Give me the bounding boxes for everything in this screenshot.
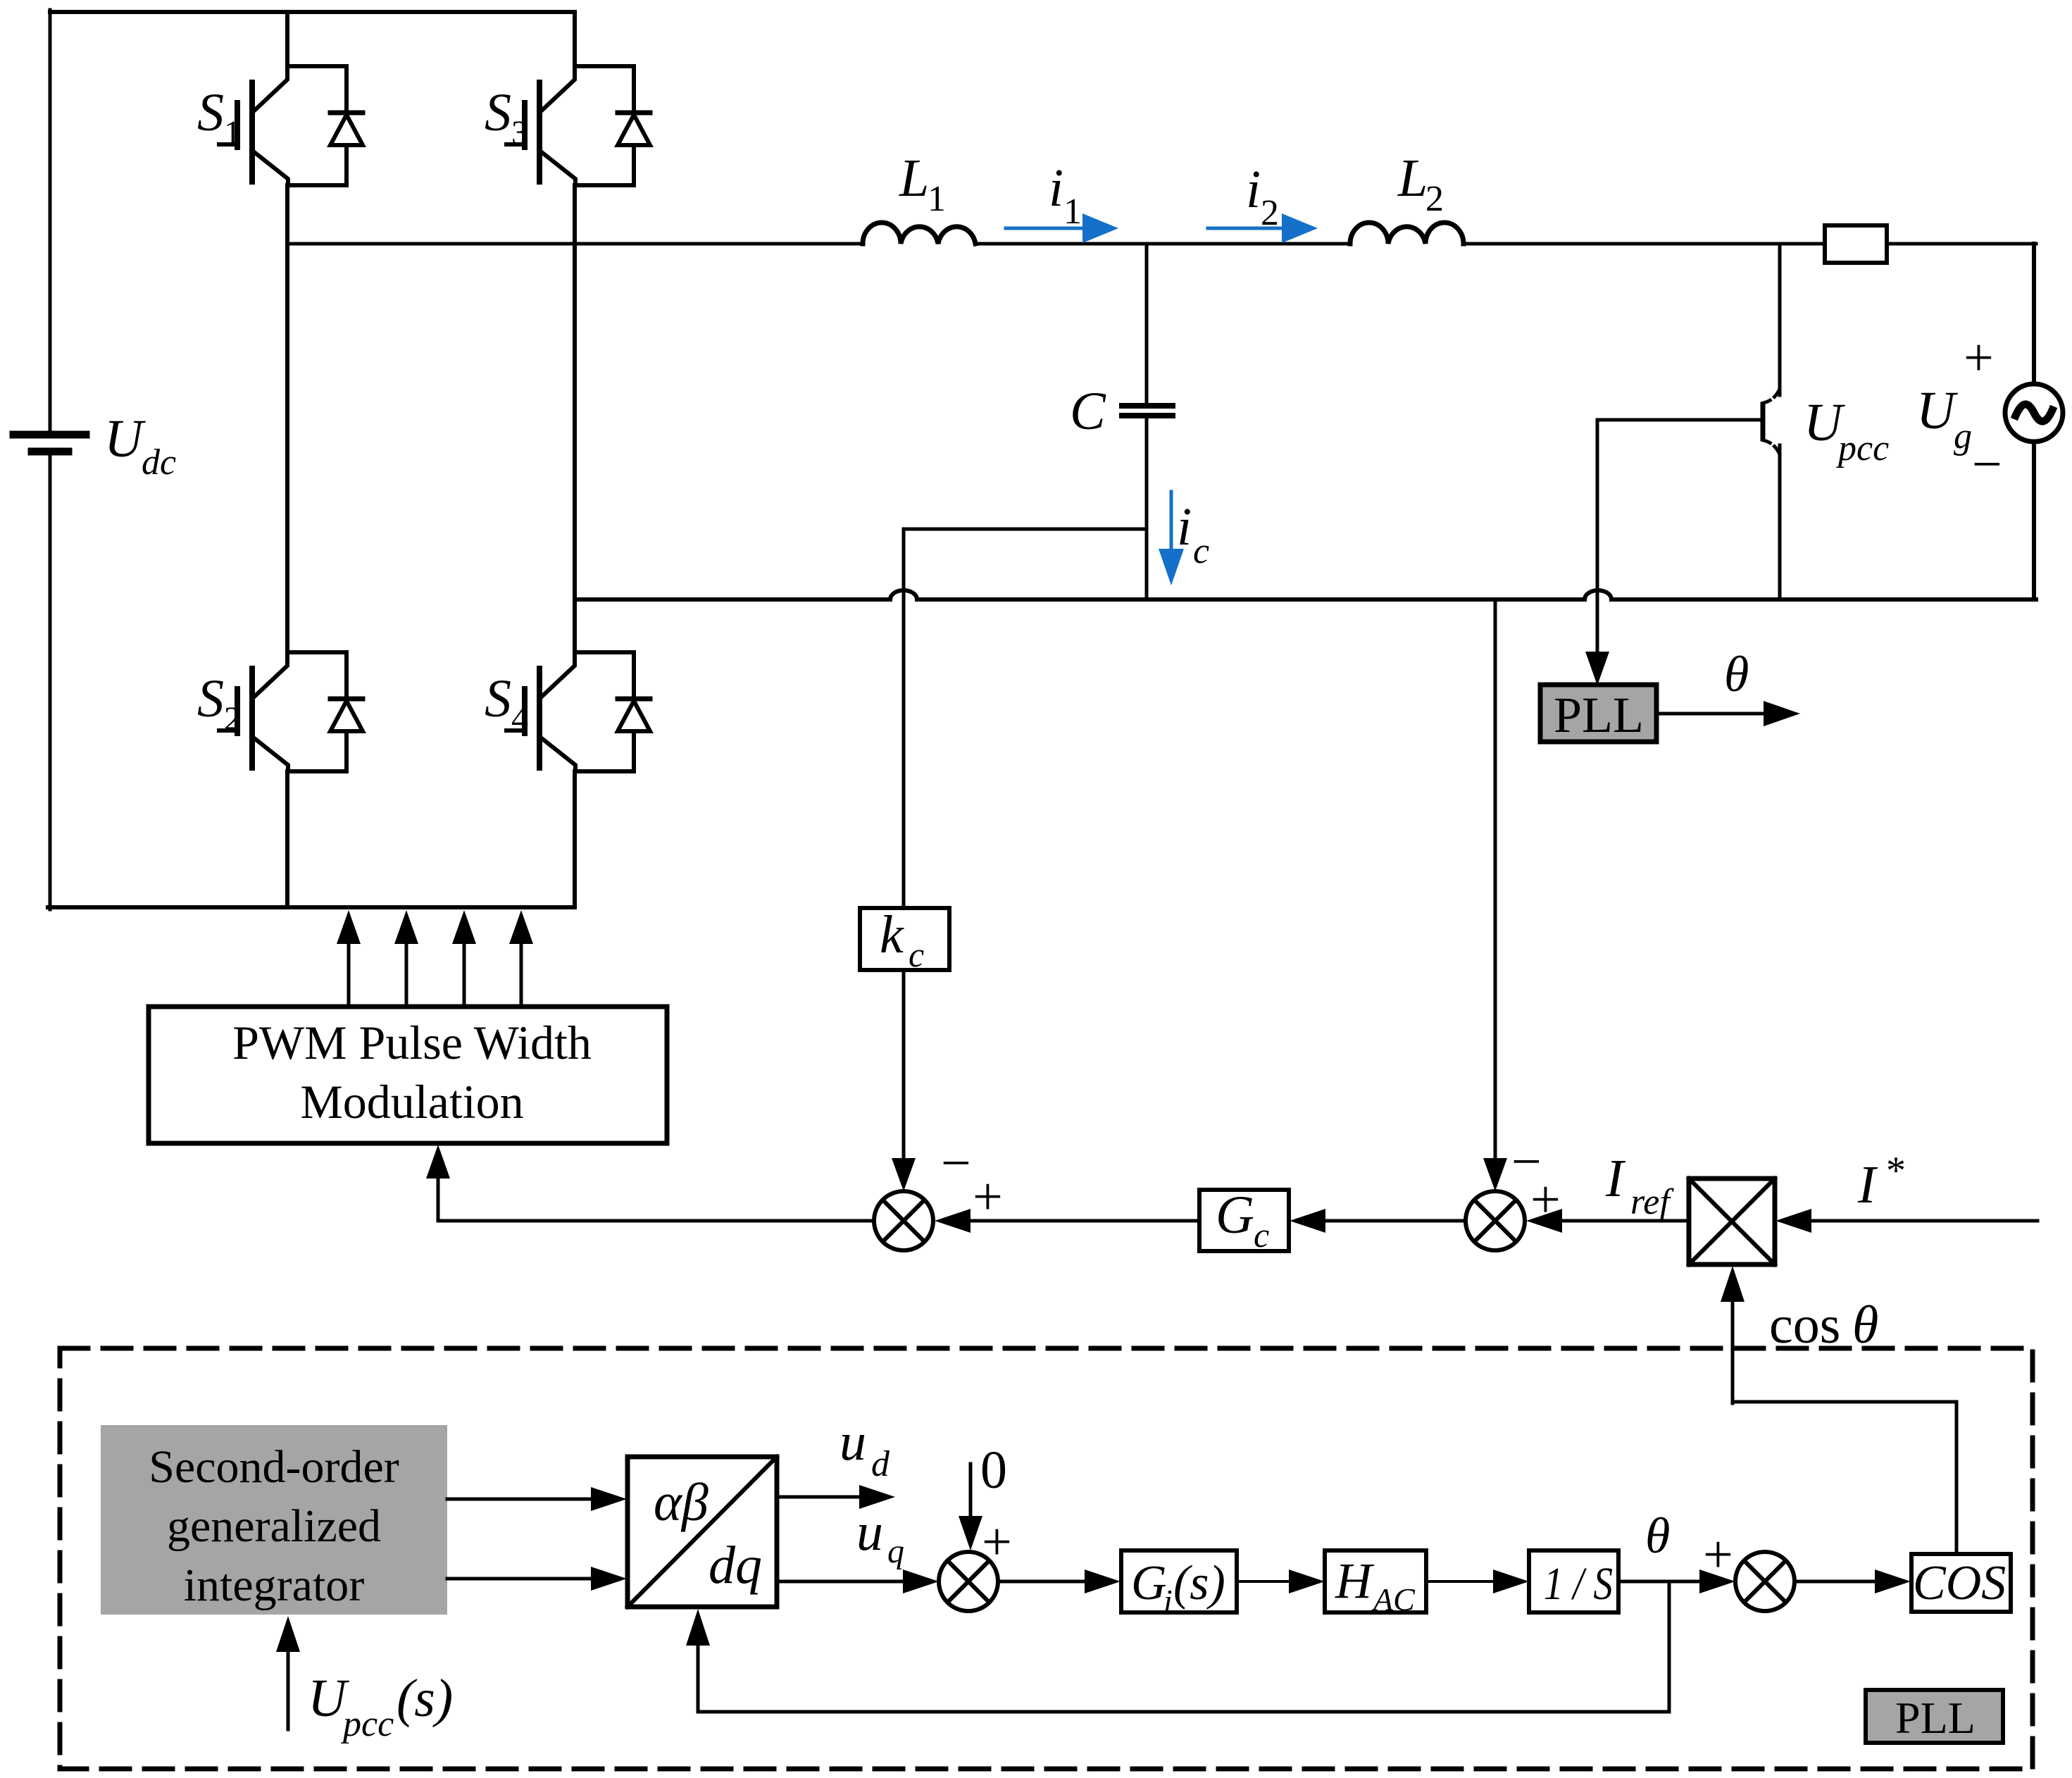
arrowhead into junction 4 xyxy=(1699,1569,1735,1593)
svg-text:i: i xyxy=(1049,158,1063,218)
dashed boundary of PLL detail xyxy=(60,1348,2033,1769)
wire Gc to junction 1 xyxy=(971,1219,1199,1223)
current arrow i2 xyxy=(1208,213,1318,243)
svg-text:C: C xyxy=(1070,382,1106,441)
wire multiplier to junction 2 xyxy=(1562,1219,1689,1223)
gate drive arrow 3 xyxy=(452,910,476,1007)
wire S3 emitter to node B and down to S4 xyxy=(573,185,577,652)
svg-text:−: − xyxy=(941,1133,971,1193)
wire top DC rail xyxy=(50,10,575,14)
summing junction 2 xyxy=(1466,1191,1525,1250)
inductor L1 xyxy=(863,223,975,244)
wire 0 into junction 3 xyxy=(969,1464,973,1516)
block HAC xyxy=(1325,1550,1426,1617)
svg-text:S: S xyxy=(197,83,224,142)
svg-text:θ: θ xyxy=(1724,646,1749,702)
arrowhead i2 feedback into junction 2 xyxy=(1483,1158,1507,1191)
wire junction 3 to Gi xyxy=(998,1580,1085,1584)
svg-text:i: i xyxy=(1246,160,1261,219)
resistor grid impedance xyxy=(1825,225,1887,263)
wire L2 to grid resistor xyxy=(1463,242,1825,246)
arrowhead Upcc(s) into SOGI xyxy=(276,1616,300,1652)
transistor S1 xyxy=(197,66,363,185)
summing junction 4 xyxy=(1735,1552,1795,1611)
block Gi(s) xyxy=(1121,1550,1237,1619)
svg-text:PLL: PLL xyxy=(1554,687,1644,743)
wire node A to L1 xyxy=(287,242,863,246)
svg-text:+: + xyxy=(1964,328,1994,387)
transistor S3 xyxy=(485,66,650,185)
wire SOGI beta output xyxy=(447,1577,591,1581)
arrowhead beta into transform xyxy=(591,1567,627,1591)
svg-text:pcc: pcc xyxy=(1835,428,1889,468)
svg-text:c: c xyxy=(1193,531,1209,571)
wire S1 emitter to node A and down to S2 xyxy=(285,185,289,652)
wire junction 4 to COS xyxy=(1795,1580,1875,1584)
arrowhead 0 into junction 3 xyxy=(959,1516,982,1550)
svg-text:dq: dq xyxy=(709,1536,762,1595)
arrowhead into Gi xyxy=(1085,1569,1121,1593)
block 1/S xyxy=(1529,1550,1618,1612)
PLL DASHED DETAIL xyxy=(60,1348,2033,1769)
wire S4 emitter to bottom rail xyxy=(573,771,577,907)
svg-text:I: I xyxy=(1605,1149,1626,1208)
wire Upcc(s) input xyxy=(287,1652,290,1729)
current arrow ic xyxy=(1159,492,1184,585)
svg-text:c: c xyxy=(1254,1215,1269,1255)
arrowhead cos theta into multiplier xyxy=(1721,1266,1745,1302)
block kc xyxy=(860,905,949,974)
svg-text:d: d xyxy=(871,1444,890,1484)
svg-text:COS: COS xyxy=(1913,1556,2006,1610)
wire lower rail feedback down to junction 2 xyxy=(1494,599,1497,1160)
wire kc to summing junction 1 xyxy=(902,970,906,1160)
svg-text:I: I xyxy=(1857,1155,1878,1214)
capacitor C branch wire upper xyxy=(1145,244,1149,403)
gate drive arrow 1 xyxy=(337,910,361,1007)
wire bottom DC rail xyxy=(48,905,575,909)
arrowhead uq into junction 3 xyxy=(903,1569,939,1593)
wire ud output xyxy=(777,1496,859,1499)
svg-text:Modulation: Modulation xyxy=(300,1075,523,1129)
wire theta feedback to transform xyxy=(698,1581,1669,1712)
svg-text:2: 2 xyxy=(1425,179,1444,219)
block Gc xyxy=(1199,1186,1289,1255)
wire grid right bus lower xyxy=(2032,442,2036,599)
svg-text:i: i xyxy=(1177,497,1192,557)
wire cos theta up into multiplier xyxy=(1731,1302,1735,1403)
svg-text:u: u xyxy=(856,1503,883,1562)
svg-text:+: + xyxy=(1703,1525,1733,1584)
wire L1 to L2 xyxy=(975,242,1350,246)
svg-text:dc: dc xyxy=(142,442,176,483)
svg-text:G: G xyxy=(1216,1186,1254,1245)
svg-text:U: U xyxy=(104,409,146,468)
gate drive arrow 2 xyxy=(394,910,418,1007)
svg-text:pcc: pcc xyxy=(340,1704,394,1744)
svg-text:H: H xyxy=(1335,1553,1375,1609)
svg-text:i: i xyxy=(1163,1583,1173,1619)
CONTROL STAGE xyxy=(149,599,2037,1554)
svg-text:(s): (s) xyxy=(1173,1556,1225,1610)
wire S1 collector to top rail xyxy=(285,12,289,66)
block COS xyxy=(1911,1554,2011,1612)
capacitor C xyxy=(1122,406,1173,416)
arrowhead into COS xyxy=(1875,1569,1911,1593)
svg-text:AC: AC xyxy=(1371,1581,1416,1617)
svg-text:1: 1 xyxy=(928,179,946,219)
svg-text:αβ: αβ xyxy=(654,1473,709,1532)
wire lower AC rail with crossover hops xyxy=(575,590,2036,599)
wire S3 collector to top rail xyxy=(573,12,577,66)
arrowhead into PWM bottom xyxy=(426,1145,450,1179)
svg-text:L: L xyxy=(1397,149,1428,208)
svg-text:generalized: generalized xyxy=(167,1500,381,1552)
arrowhead Iref into junction 2 xyxy=(1526,1209,1562,1233)
svg-text:4: 4 xyxy=(511,700,528,738)
svg-text:k: k xyxy=(880,905,904,964)
svg-text:*: * xyxy=(1886,1149,1906,1193)
summing junction 3 xyxy=(939,1552,998,1611)
arrowhead feedback into transform bottom xyxy=(686,1609,710,1646)
arrowhead theta output xyxy=(1764,701,1800,726)
wire Upcc upper terminal xyxy=(1778,244,1782,395)
svg-text:integrator: integrator xyxy=(184,1560,365,1611)
arrowhead into PLL xyxy=(1585,652,1609,685)
wire capacitor tap to kc column xyxy=(904,529,1147,908)
svg-text:1: 1 xyxy=(224,114,241,151)
arrowhead into 1/S xyxy=(1493,1569,1529,1593)
wire PLL theta output xyxy=(1656,712,1764,716)
wire left DC bus lower xyxy=(49,454,52,909)
wire resistor to grid source xyxy=(1887,242,2036,246)
svg-text:ref: ref xyxy=(1630,1182,1674,1222)
arrowhead Gc into junction 1 xyxy=(935,1209,971,1233)
current arrow i1 xyxy=(1006,213,1118,243)
wire summing junction 1 to PWM input xyxy=(438,1179,873,1221)
wire HAC to 1/S xyxy=(1426,1580,1493,1583)
svg-text:θ: θ xyxy=(1645,1507,1670,1564)
svg-text:U: U xyxy=(1916,381,1958,440)
svg-text:2: 2 xyxy=(224,700,241,738)
probe Upcc dashed hooks xyxy=(1764,389,1780,454)
svg-text:1 / S: 1 / S xyxy=(1544,1558,1613,1610)
wire SOGI alpha output xyxy=(447,1498,591,1501)
svg-text:g: g xyxy=(1954,416,1972,456)
wire grid right bus upper xyxy=(2032,244,2036,384)
wire uq output xyxy=(777,1580,903,1584)
AC source Ug xyxy=(2005,384,2063,442)
block Second-order generalized integrator xyxy=(101,1425,447,1615)
inductor L2 xyxy=(1350,223,1463,244)
arrowhead into Gc xyxy=(1290,1209,1325,1233)
svg-text:c: c xyxy=(909,935,924,974)
arrowhead into HAC xyxy=(1289,1569,1325,1593)
wire cos theta feed from COS xyxy=(1733,1402,1956,1554)
svg-text:(s): (s) xyxy=(397,1669,453,1728)
label Upcc(s) xyxy=(308,1669,453,1744)
svg-text:+: + xyxy=(973,1167,1003,1226)
wire S2 emitter to bottom rail xyxy=(285,771,289,907)
summing junction 1 xyxy=(874,1191,933,1250)
svg-text:2: 2 xyxy=(1261,193,1279,233)
transistor S2 xyxy=(197,652,363,771)
svg-text:−: − xyxy=(1972,435,2002,494)
multiplier block xyxy=(1689,1179,1775,1264)
wire Upcc lower terminal xyxy=(1778,445,1782,599)
capacitor C branch wire lower xyxy=(1145,418,1149,599)
wire I* input xyxy=(1811,1219,2037,1223)
block PWM Pulse Width Modulation xyxy=(149,1007,667,1143)
svg-text:1: 1 xyxy=(1063,192,1082,232)
wire junction 2 to Gc xyxy=(1325,1219,1465,1223)
svg-text:PWM Pulse Width: PWM Pulse Width xyxy=(232,1016,592,1069)
svg-text:q: q xyxy=(887,1533,904,1570)
svg-text:S: S xyxy=(485,669,511,728)
svg-text:θ: θ xyxy=(1852,1295,1878,1355)
svg-text:S: S xyxy=(485,83,511,142)
wire Upcc sense tap xyxy=(1597,418,1761,422)
svg-text:G: G xyxy=(1131,1556,1167,1610)
svg-text:cos: cos xyxy=(1769,1295,1840,1355)
arrowhead I* into multiplier xyxy=(1775,1209,1811,1233)
POWER STAGE xyxy=(13,10,2063,909)
svg-text:Second-order: Second-order xyxy=(149,1441,399,1493)
svg-text:L: L xyxy=(899,149,929,208)
svg-text:0: 0 xyxy=(980,1441,1007,1500)
transistor S4 xyxy=(485,652,650,771)
wire sense line down to PLL xyxy=(1596,420,1599,653)
wire left DC bus upper xyxy=(49,10,52,432)
svg-text:3: 3 xyxy=(511,114,528,151)
battery Udc xyxy=(13,435,86,452)
gate drive arrow 4 xyxy=(509,910,533,1007)
svg-text:S: S xyxy=(197,669,224,728)
wire Gi to HAC xyxy=(1237,1580,1289,1583)
block alpha-beta to dq transform xyxy=(628,1457,777,1607)
arrowhead alpha into transform xyxy=(591,1487,627,1511)
svg-text:u: u xyxy=(840,1412,866,1472)
wire 1/S to junction 4 xyxy=(1618,1580,1699,1584)
block PLL xyxy=(1540,685,1656,743)
probe Upcc bar xyxy=(1761,404,1766,439)
block PLL tag xyxy=(1866,1690,2003,1743)
arrowhead kc into junction 1 xyxy=(892,1158,916,1191)
arrowhead ud xyxy=(859,1485,895,1509)
svg-text:PLL: PLL xyxy=(1895,1693,1976,1743)
